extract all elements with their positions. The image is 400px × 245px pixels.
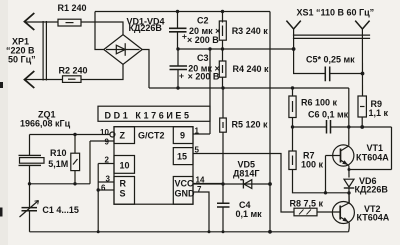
svg-text:14: 14 <box>196 176 205 185</box>
svg-text:R: R <box>120 179 127 189</box>
capacitor C3 <box>177 49 179 66</box>
IC DD1 label box <box>98 106 210 121</box>
svg-text:1,1 к: 1,1 к <box>369 108 389 118</box>
svg-text:C6 0,1 мк: C6 0,1 мк <box>308 110 349 120</box>
resistor R6 <box>292 88 294 96</box>
wire DD1 pin2 <box>98 163 114 165</box>
svg-text:Z: Z <box>120 131 126 141</box>
DD1 cell VCC GND <box>173 177 193 205</box>
diode VD6 <box>344 179 354 187</box>
socket XS1 fork pin 1 <box>286 21 300 29</box>
resistor R5 <box>222 88 224 118</box>
svg-text:КД226В: КД226В <box>129 23 163 33</box>
svg-text:10: 10 <box>100 128 109 137</box>
bridge diode symbol <box>106 49 140 51</box>
junction C3 / minus rail <box>176 86 179 89</box>
junction R9 / collector line <box>360 125 364 129</box>
wire ground column pins 2,3,6 <box>97 164 99 232</box>
XP1 cord double line <box>43 21 46 81</box>
DD1 pin10 inversion bubble <box>110 132 115 137</box>
wire bridge right corner to minus rail <box>142 50 149 89</box>
svg-text:2: 2 <box>105 156 110 165</box>
resistor R4 <box>222 49 224 61</box>
VT1 emitter arrow <box>342 160 348 165</box>
svg-text:C3: C3 <box>197 53 209 63</box>
wire XS1 pin2 down to C5/R9 node <box>361 29 363 96</box>
scan artifact left edge lower <box>0 208 3 217</box>
junction pin6 / ground column <box>97 188 100 191</box>
DD1 cell R S <box>114 177 135 205</box>
wire R5 bottom to VD5 line <box>222 132 224 184</box>
junction C6 / collector column <box>347 125 350 128</box>
svg-text:КТ604А: КТ604А <box>356 153 389 163</box>
wire collector top line <box>349 126 392 128</box>
svg-text:C1 4...15: C1 4...15 <box>42 205 79 215</box>
junction R6 / R7 / C6 <box>291 125 294 128</box>
svg-text:G/CT2: G/CT2 <box>138 131 165 141</box>
junction R4-R5 / minus rail <box>221 86 224 89</box>
DD1 cell Z <box>114 127 135 144</box>
junction R5 / VD5 / C4 <box>221 182 224 185</box>
wire XP1 pin2 to R2 <box>25 79 63 81</box>
svg-text:GND: GND <box>175 189 196 199</box>
svg-text:5,1М: 5,1М <box>48 159 68 169</box>
wire DD1 pin1 <box>193 133 210 135</box>
resistor R2 <box>63 76 82 83</box>
svg-text:15: 15 <box>177 152 187 162</box>
junction ZQ1 bottom / C1 / osc row <box>28 182 31 185</box>
wire DD1 pin3 <box>98 181 114 183</box>
svg-text:VCC: VCC <box>175 179 195 189</box>
DD1 cell 15 <box>173 148 193 165</box>
svg-text:1: 1 <box>195 127 200 136</box>
svg-text:10: 10 <box>120 161 130 171</box>
wire XP1 pin1 to R1 <box>25 21 58 23</box>
svg-text:5: 5 <box>195 146 200 155</box>
resistor R7 <box>292 127 294 151</box>
wire R2 to bridge bottom corner <box>81 64 123 79</box>
svg-text:XS1 “110 В 60 Гц”: XS1 “110 В 60 Гц” <box>297 8 375 18</box>
VT2 emitter arrow <box>343 217 349 222</box>
svg-text:7: 7 <box>197 185 202 194</box>
svg-text:0,1 мк: 0,1 мк <box>236 209 263 219</box>
svg-text:9: 9 <box>180 131 185 141</box>
junction pin7 drop / bottom rail <box>208 230 211 233</box>
svg-text:× 200 В: × 200 В <box>187 35 219 45</box>
diode bridge VD1-VD4 diamond <box>104 35 142 65</box>
wire C6 line left <box>293 126 327 128</box>
junction C2-C3 / mid rail <box>176 47 179 50</box>
wire collector column <box>348 88 350 146</box>
svg-text:Д814Г: Д814Г <box>233 169 260 179</box>
capacitor C5 <box>325 67 329 82</box>
junction VT1 base drop / R7 line <box>324 191 327 194</box>
junction C2 / top rail <box>176 10 179 13</box>
junction R3 / top rail <box>221 10 224 13</box>
capacitor C6 <box>327 120 331 134</box>
wire VT1 base drop <box>325 156 327 193</box>
junction R6 / minus rail <box>291 86 294 89</box>
resistor R1 <box>58 19 81 26</box>
connector XP1 pin 2 arrow <box>25 71 35 88</box>
wire VD6 to VT2 collector <box>348 188 350 203</box>
resistor R10 <box>74 135 76 154</box>
junction R3-R4 / mid rail <box>221 47 224 50</box>
svg-text:S: S <box>120 189 126 199</box>
wire R1 to bridge top corner <box>81 22 123 35</box>
wire osc bottom row <box>30 183 91 185</box>
junction C4 / bottom rail <box>222 230 225 233</box>
wire C6 line right <box>331 126 349 128</box>
svg-text:× 200 В: × 200 В <box>188 72 220 82</box>
svg-text:C2: C2 <box>197 16 209 26</box>
wire XS1 pin1 down to C5 <box>294 29 326 74</box>
wire R6 bottom to C6 line <box>292 118 294 128</box>
junction net L / bottom rail <box>268 230 272 234</box>
IC DD1 body <box>114 127 193 205</box>
transistor VT2 <box>332 202 354 224</box>
resistor R9 <box>358 96 366 117</box>
capacitor C4 <box>222 184 224 203</box>
resistor R8 <box>294 208 317 216</box>
svg-text:50 Гц”: 50 Гц” <box>8 55 36 65</box>
svg-text:VT1: VT1 <box>367 143 384 153</box>
junction R7 line / VD6-VT2 column <box>347 191 350 194</box>
svg-text:100 к: 100 к <box>301 160 324 170</box>
connector XP1 pin 1 arrow <box>25 13 35 30</box>
junction pin1 riser / mid rail <box>208 47 211 50</box>
wire R9 bottom to collector line <box>361 117 363 127</box>
junction VT1 emitter / loop line <box>348 168 351 171</box>
wire R7 bottom to base line <box>293 170 350 193</box>
junction XS1 pin1 / mid rail <box>292 47 296 51</box>
svg-text:DD1 К176ИЕ5: DD1 К176ИЕ5 <box>105 111 192 121</box>
svg-text:R10: R10 <box>50 148 67 158</box>
svg-text:R1 240: R1 240 <box>58 3 87 13</box>
junction R10 top / pin10 wire <box>73 133 76 136</box>
wire top rail <box>95 11 270 13</box>
wire riser pin1 to mid rail <box>209 49 211 134</box>
svg-text:R4 240 к: R4 240 к <box>233 64 270 74</box>
junction C5 / XS1 pin2 / R9 <box>361 72 365 76</box>
XS1 body double line <box>293 35 370 38</box>
wire loop bottom line <box>349 169 392 171</box>
svg-text:3: 3 <box>106 175 111 184</box>
C3 plus mark <box>179 74 183 78</box>
socket XS1 fork pin 2 <box>355 21 369 29</box>
DD1 cell 9 <box>173 127 193 144</box>
wire pin5 to R8 <box>193 154 294 213</box>
vertical wire net L (top rail to VD5 node) <box>269 12 271 185</box>
svg-text:R2 240: R2 240 <box>59 66 88 76</box>
C2 plus mark <box>182 34 186 38</box>
wire mid rail <box>178 48 294 50</box>
crystal ZQ1 <box>29 135 31 156</box>
junction ground column / bottom rail <box>97 230 100 233</box>
svg-text:R5 120 к: R5 120 к <box>232 120 269 130</box>
svg-text:1966,08 кГц: 1966,08 кГц <box>20 119 71 129</box>
svg-text:6: 6 <box>101 184 106 193</box>
junction VD5 line / net L <box>268 182 272 186</box>
DD1 cell 10 <box>114 156 135 174</box>
wire DD1 pin7 GND drop <box>193 192 209 232</box>
wire loop right vertical <box>391 127 393 170</box>
wire bottom rail <box>30 231 349 233</box>
wire net L to bottom rail <box>269 184 271 232</box>
wire DD1 pin14 <box>193 183 223 185</box>
wire DD1 pin9 <box>90 140 114 142</box>
wire DD1 pin6 <box>98 189 114 191</box>
svg-text:R6 100 к: R6 100 к <box>301 98 338 108</box>
transistor VT1 <box>333 145 354 166</box>
svg-text:R3 240 к: R3 240 к <box>232 26 269 36</box>
svg-text:КТ604А: КТ604А <box>357 213 390 223</box>
svg-text:R8 7,5 к: R8 7,5 к <box>290 199 324 209</box>
wire bridge left corner riser to top rail <box>95 12 104 50</box>
wire minus rail <box>149 87 349 89</box>
svg-text:КД226В: КД226В <box>355 185 389 195</box>
junction R10 bottom / osc row <box>73 182 76 185</box>
resistor R3 <box>222 12 224 23</box>
capacitor C2 <box>177 12 179 29</box>
scan artifact left edge upper <box>0 82 3 88</box>
svg-text:C5* 0,25 мк: C5* 0,25 мк <box>306 55 355 65</box>
svg-text:9: 9 <box>105 138 110 147</box>
diode VD5 zener <box>193 183 223 185</box>
wire riser pin9 to osc row <box>89 141 91 184</box>
variable capacitor C1 <box>29 184 31 208</box>
wire ZQ1 top row to pin10 <box>30 134 111 136</box>
